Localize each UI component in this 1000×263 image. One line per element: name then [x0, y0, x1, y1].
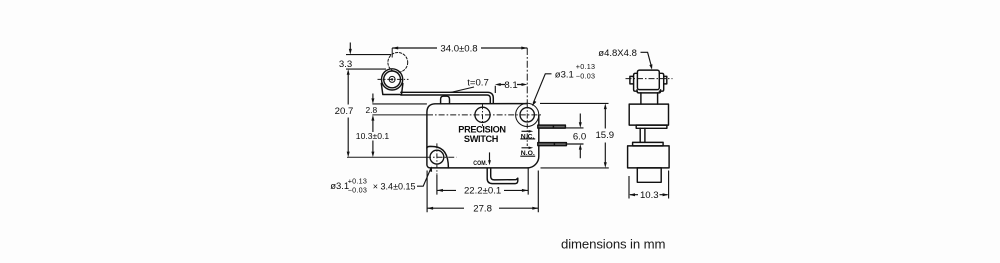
svg-text:15.9: 15.9 — [595, 130, 614, 141]
arrow 6.0 bottom (up) — [579, 144, 582, 150]
side view: upper block — [629, 104, 668, 125]
roller horizontal centerline — [378, 78, 409, 80]
arrow 34.0 left — [392, 47, 398, 50]
svg-text:COM.: COM. — [473, 160, 487, 167]
dim 34.0 line — [392, 47, 527, 49]
svg-text:10.3±0.1: 10.3±0.1 — [356, 131, 390, 141]
arrow 22.2 left — [437, 189, 443, 192]
side view: fork base under roller — [637, 90, 661, 93]
leader top phi3.1 — [533, 74, 551, 103]
dimension lines — [346, 43, 669, 213]
side view: lower tab — [633, 142, 664, 146]
dim 10.3 line — [372, 141, 374, 153]
svg-text:N.C.: N.C. — [521, 133, 535, 140]
arrow 15.9 bottom (down) — [604, 162, 607, 168]
bottom-left hole — [430, 150, 444, 164]
side view: bottom block — [637, 168, 661, 182]
arrow N.C. pointer — [529, 130, 534, 133]
switch body outline (front view) — [427, 104, 539, 168]
N.O. underline — [520, 155, 535, 157]
arrow 3.3 down to top line — [349, 49, 352, 55]
leader phi4.8 — [641, 52, 652, 66]
dim 6.0 extensions + arrows tails — [566, 114, 584, 159]
COM terminal (L-shaped) — [487, 168, 518, 183]
svg-text:6.0: 6.0 — [573, 132, 586, 143]
side view: fork flange right — [659, 73, 667, 91]
arrow 20.7 top (up) — [347, 69, 350, 75]
arrow 6.0 top (down) — [579, 122, 582, 128]
dim 27.8 line + extensions — [427, 171, 538, 213]
svg-text:−0.03: −0.03 — [576, 72, 595, 81]
arrow leader top phi3.1 — [532, 101, 536, 107]
svg-text:t=0.7: t=0.7 — [467, 77, 489, 88]
svg-text:+0.13: +0.13 — [576, 62, 595, 71]
svg-text:SWITCH: SWITCH — [464, 134, 499, 144]
N.C. underline — [520, 138, 535, 140]
svg-text:10.3: 10.3 — [640, 190, 659, 201]
COM down arrow line — [489, 152, 491, 161]
side view: lower block — [628, 146, 670, 168]
centerline bottom hole vertical — [436, 143, 438, 174]
arrow 10.3 down to bottom hole line — [371, 152, 374, 158]
svg-text:ø3.1: ø3.1 — [555, 69, 574, 80]
side view: middle stem — [640, 128, 645, 142]
arrow 2.8 down to body top — [371, 98, 374, 104]
bottom-left mounting boss outline — [427, 146, 449, 168]
dim 10.3 side view extensions + line — [629, 171, 669, 199]
arrow leader phi4.8 — [649, 64, 652, 69]
arrow 34.0 right — [521, 47, 527, 50]
arrow COM down — [488, 160, 491, 165]
svg-text:22.2±0.1: 22.2±0.1 — [464, 186, 501, 197]
svg-text:20.7: 20.7 — [335, 106, 354, 117]
N.O. pointer arrow line — [522, 147, 531, 149]
roller inner circle — [384, 71, 401, 88]
arrow 15.9 top (up) — [604, 103, 607, 109]
arrow 8.1 right — [522, 83, 528, 86]
top-left mounting hole — [475, 107, 490, 122]
lever arm strip — [401, 92, 494, 103]
N.O. terminal prong — [538, 143, 567, 146]
dim 3.3 top arrow tail — [349, 43, 351, 51]
svg-text:N.O.: N.O. — [521, 150, 535, 157]
centerline bottom hole horizontal — [347, 156, 425, 158]
svg-text:2.8: 2.8 — [365, 105, 377, 115]
arrow N.O. pointer — [529, 147, 534, 150]
svg-text:3.3: 3.3 — [339, 59, 352, 70]
dim 20.7 line — [347, 74, 349, 153]
svg-text:8.1: 8.1 — [504, 80, 517, 91]
dim t=0.7 leader — [450, 87, 474, 93]
dim 15.9 extensions + line — [540, 103, 609, 167]
dim 8.1 line + extension — [495, 85, 522, 94]
svg-text:27.8: 27.8 — [473, 203, 492, 214]
roller free-position dashed circle — [388, 53, 408, 73]
centerlines — [347, 48, 673, 175]
arrow 27.8 right — [532, 207, 538, 210]
svg-text:ø3.1: ø3.1 — [330, 181, 349, 192]
side view: plunger neck — [641, 93, 658, 104]
roller outer circle — [382, 69, 403, 90]
arrow 2.8/10.3 up to hole line — [371, 115, 374, 121]
N.C. pointer arrow line — [522, 130, 531, 132]
N.C. terminal prong — [538, 125, 566, 128]
extension line body top (A) — [372, 103, 427, 105]
arrow leader bottom phi3.1 — [429, 166, 432, 172]
side view: roller (edge-on) — [637, 70, 659, 90]
side view roller centerline — [626, 78, 673, 80]
arrow 22.2 right — [522, 189, 528, 192]
svg-text:−0.03: −0.03 — [348, 186, 367, 195]
arrow 8.1 left — [495, 83, 501, 86]
centerline right hole vertical — [526, 48, 528, 103]
dim 22.2 line + extensions — [437, 168, 528, 194]
centerline top holes horizontal — [372, 114, 427, 116]
top-right mounting hole — [520, 108, 534, 122]
arrow 10.3 side right — [663, 193, 669, 196]
side view: upper tab — [636, 125, 667, 128]
arrow 20.7 bottom (down) — [347, 152, 350, 158]
svg-text:+0.13: +0.13 — [348, 177, 367, 186]
dim 3.3 extension lines — [346, 55, 391, 70]
centerline left hole vertical — [482, 104, 484, 126]
plunger bump on top edge — [441, 96, 450, 104]
svg-text:× 3.4±0.15: × 3.4±0.15 — [373, 182, 416, 192]
dim 2.8 arrows tails — [372, 94, 374, 133]
arrow 10.3 side left — [629, 193, 635, 196]
roller center dot — [391, 78, 393, 80]
roller hub — [389, 76, 395, 82]
roller bracket fork — [381, 83, 403, 94]
svg-text:dimensions in mm: dimensions in mm — [561, 236, 665, 251]
side view: fork flange left — [630, 73, 638, 91]
svg-text:ø4.8X4.8: ø4.8X4.8 — [598, 48, 637, 59]
extension line from roller center (34.0 left) — [391, 48, 393, 58]
leader bottom phi3.1 — [417, 169, 431, 187]
arrow 27.8 left — [427, 207, 433, 210]
arrowheads — [347, 47, 669, 210]
boss circle around top-right hole — [516, 103, 539, 126]
svg-text:34.0±0.8: 34.0±0.8 — [440, 43, 477, 54]
